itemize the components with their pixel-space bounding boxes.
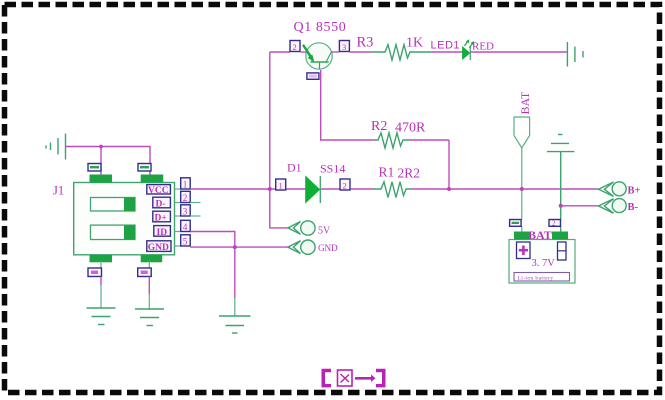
battery body	[509, 240, 575, 284]
wire tab to shield box bottom-right	[148, 261, 150, 268]
svg-text:B-: B-	[628, 202, 639, 213]
J1 pin name D-	[153, 197, 171, 209]
wire pin2 box to R1	[350, 188, 374, 190]
svg-text:2: 2	[552, 220, 556, 228]
ground bottom-middle	[219, 316, 251, 333]
J1 pin 2 outer stub	[190, 202, 200, 204]
ground bottom-left 2	[135, 309, 164, 326]
svg-text:RED: RED	[472, 41, 494, 53]
svg-text:VCC: VCC	[148, 186, 169, 196]
svg-text:ID: ID	[157, 228, 168, 238]
J1 pin 3 box	[181, 205, 191, 217]
svg-text:1K: 1K	[406, 36, 423, 51]
wire emitter riser top to Q1 pin2	[270, 51, 290, 53]
svg-text:2: 2	[183, 193, 188, 203]
junction GND node	[233, 245, 237, 249]
D1 pin 1 box	[276, 179, 286, 191]
wire D1 cathode to pin2 box	[321, 188, 340, 190]
svg-text:D1: D1	[287, 161, 302, 175]
wire LED1 to ground	[470, 51, 567, 53]
resistor R2	[375, 133, 410, 148]
caption 图一	[322, 369, 386, 388]
svg-text:D+: D+	[155, 213, 167, 223]
J1 shield pin box top-right	[138, 164, 151, 172]
wire Q1 pin3 to R3	[300, 51, 307, 53]
svg-text:B+: B+	[628, 186, 641, 197]
J1 bottom mounting tab left	[90, 255, 113, 262]
svg-text:470R: 470R	[395, 121, 426, 136]
node VCC junction	[268, 187, 272, 191]
svg-text:2: 2	[293, 42, 297, 52]
wire Q1 base down to R2	[321, 70, 375, 140]
J1 pin stubs	[175, 189, 181, 246]
wire J1 pin5 GND rail	[190, 246, 290, 248]
J1 pin name D+	[153, 211, 171, 223]
svg-text:R2: R2	[371, 119, 387, 134]
Q1 pin 2 box	[290, 41, 300, 53]
battery label strip	[514, 273, 570, 282]
J1 shield pin box bottom-right	[138, 268, 152, 277]
junction R1/R2/B+	[447, 187, 451, 191]
J1 pin 2 box	[181, 191, 191, 203]
battery plus terminal	[517, 242, 531, 259]
svg-text:3: 3	[183, 206, 188, 216]
svg-text:GND: GND	[148, 243, 169, 253]
D1 pin 2 box	[340, 179, 350, 191]
wire tab left to ground	[100, 277, 102, 309]
svg-text:BAT: BAT	[518, 91, 532, 114]
svg-text:5: 5	[183, 236, 188, 246]
svg-text:SS14: SS14	[320, 162, 345, 176]
J1 contact slot lower	[91, 225, 136, 239]
resistor R1	[374, 182, 412, 198]
wire J1 pin4 ID to GND net	[190, 232, 235, 248]
ground (top-left, facing left)	[46, 134, 66, 160]
wire R1 to junction	[412, 188, 449, 190]
svg-text:4: 4	[183, 222, 188, 232]
wire R2 to corner	[410, 139, 449, 141]
J1 shield pin box bottom-left	[88, 268, 102, 277]
svg-text:2: 2	[343, 181, 347, 191]
J1 top mounting tab right	[141, 175, 164, 183]
ground top-right (facing right)	[567, 42, 583, 67]
connector J1 body	[74, 183, 175, 255]
Q1 pin 1 box (base)	[307, 73, 319, 79]
svg-text:R3: R3	[357, 35, 374, 51]
J1 pin name VCC	[147, 185, 171, 196]
battery pad -	[552, 232, 568, 240]
svg-text:LED1: LED1	[431, 40, 461, 52]
LED LED1	[463, 39, 475, 60]
wire R2 right leg down	[448, 140, 450, 189]
wire B- rail	[561, 205, 599, 207]
wire tab right to ground	[148, 277, 150, 310]
ground bottom-left 1	[87, 308, 116, 325]
svg-text:GND: GND	[318, 244, 338, 254]
battery pad +	[514, 232, 530, 240]
transistor Q1	[303, 43, 332, 70]
svg-text:1: 1	[183, 179, 188, 189]
svg-text:3. 7V: 3. 7V	[532, 258, 556, 269]
power port 5V	[288, 221, 315, 235]
wire tab to shield box bottom-left	[100, 261, 102, 268]
battery minus terminal	[558, 242, 567, 260]
J1 pin 5 box	[181, 235, 191, 247]
svg-text:Q1 8550: Q1 8550	[294, 20, 347, 35]
battery BAT pin 2 box	[549, 220, 561, 228]
J1 top mounting tab left	[90, 175, 113, 183]
battery BAT pin 1 box	[510, 220, 521, 227]
J1 bottom mounting tab right	[141, 255, 163, 262]
J1 pin 4 box	[181, 220, 191, 232]
wire D1 anode gap	[286, 188, 306, 190]
J1 shield pin box top-left	[88, 164, 101, 172]
svg-text:3: 3	[342, 42, 346, 52]
wire emitter riser / 5V drop	[270, 52, 290, 228]
connector B-	[599, 199, 627, 214]
wire B+ rail	[449, 188, 599, 190]
wire R3 to LED1	[431, 51, 463, 53]
J1 contact slot upper	[91, 198, 136, 212]
diode D1	[306, 176, 321, 203]
junction B-	[559, 204, 563, 208]
wire top-left ground to J1 shield pins	[66, 147, 151, 175]
connector B+	[599, 182, 627, 197]
svg-text:D-: D-	[156, 199, 166, 209]
power port GND	[288, 240, 315, 254]
power port BAT (net label flag)	[514, 117, 530, 232]
J1 pin 1 box	[181, 178, 191, 190]
wire J1 pin1 VCC rail	[190, 188, 276, 190]
svg-text:5V: 5V	[318, 226, 331, 237]
junction BAT riser	[520, 187, 524, 191]
svg-text:J1: J1	[53, 184, 64, 198]
junction top-left	[99, 145, 103, 149]
svg-text:R1: R1	[379, 165, 395, 180]
ground mid-right (facing up)	[547, 135, 575, 232]
Q1 pin 3 box	[339, 41, 349, 53]
J1 pin 3 outer stub	[190, 215, 200, 217]
wire GND down to ground	[234, 247, 236, 316]
svg-text:2R2: 2R2	[398, 166, 421, 181]
J1 pin name ID	[154, 226, 171, 238]
svg-text:1: 1	[279, 181, 283, 191]
svg-text:Li-ion battery: Li-ion battery	[518, 275, 554, 281]
resistor R3	[371, 45, 431, 60]
J1 pin name GND	[147, 241, 171, 253]
